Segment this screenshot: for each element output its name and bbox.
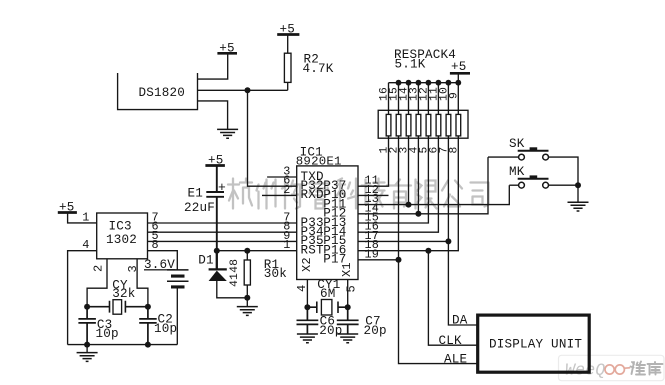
svg-text:10p: 10p xyxy=(154,322,177,336)
label +5 IC3 xyxy=(59,201,75,215)
IC1 inside right labels xyxy=(323,179,346,267)
label C3 xyxy=(97,318,113,332)
IC1 bottom pin numbers rotated xyxy=(295,285,359,293)
IC3 bottom pin numbers rotated xyxy=(92,265,141,273)
wire DS1820 pin3 GND xyxy=(198,101,228,129)
node pin18 CLK tap xyxy=(425,248,431,254)
label R2 xyxy=(304,53,320,67)
label +5 E1 xyxy=(208,153,224,167)
capacitor C3 10p xyxy=(78,307,96,345)
wire switch common to ground xyxy=(577,185,579,202)
IC3 left pin numbers xyxy=(82,211,89,253)
wire IC1 pin18 row to respack col8 xyxy=(358,138,458,251)
power +5 (R2) xyxy=(277,33,299,36)
wire SK right lead xyxy=(549,157,579,185)
crystal CY1 6M xyxy=(307,300,347,316)
svg-text:X2: X2 xyxy=(300,257,314,272)
label 4.7K xyxy=(303,62,334,76)
svg-text:20p: 20p xyxy=(319,324,342,338)
svg-text:1302: 1302 xyxy=(106,233,137,247)
svg-text:2: 2 xyxy=(92,265,106,272)
wire IC1 pin11 row to respack col1 xyxy=(358,138,389,186)
wire respack col3 drop xyxy=(408,138,410,204)
svg-text:22uF: 22uF xyxy=(184,201,215,215)
wire respack col2 through to ALE xyxy=(399,138,478,363)
wire RST segment to IC1 pin1 xyxy=(217,250,297,252)
node crystal left xyxy=(84,304,90,310)
svg-text:6M: 6M xyxy=(320,287,336,301)
power +5 (DS1820) xyxy=(217,52,237,55)
label DISPLAY UNIT xyxy=(489,338,582,352)
svg-text:RST: RST xyxy=(301,244,325,258)
node E1/D1 on RST line xyxy=(214,248,220,254)
label D1 xyxy=(198,253,214,267)
label C2 xyxy=(158,312,174,326)
svg-text:CLK: CLK xyxy=(439,334,463,348)
wire respack +5 stem xyxy=(457,73,459,82)
svg-text:IC3: IC3 xyxy=(109,220,132,234)
DS1820 U2 sensor box (open top) xyxy=(118,73,198,110)
svg-text:32k: 32k xyxy=(112,287,135,301)
node R1 top on RST line xyxy=(244,248,250,254)
label CY1 xyxy=(317,278,340,292)
crystal CY 32k xyxy=(87,300,148,315)
svg-text:4: 4 xyxy=(82,238,89,252)
wire bottom rail xyxy=(68,344,178,346)
IC1 pin4 X2 drop xyxy=(306,280,308,308)
battery BT1 3.6V xyxy=(167,270,189,345)
svg-text:+5: +5 xyxy=(451,60,467,74)
label DA xyxy=(452,314,468,328)
IC1 right pin numbers xyxy=(365,174,380,262)
svg-text:DA: DA xyxy=(452,314,468,328)
watermark chinese text row xyxy=(228,179,489,209)
svg-text:WeeQ: WeeQ xyxy=(565,361,605,380)
wire IC3-IC1 row pin7 xyxy=(148,222,297,224)
label +5 DS1820 xyxy=(219,42,235,56)
wire IC1 pin17 row DA xyxy=(358,240,448,242)
wire rail to ground xyxy=(86,345,88,353)
respack bottom pin numbers rotated 1..8 xyxy=(379,147,461,154)
wire DQ vertical to IC1 P32 pin6 xyxy=(248,90,297,186)
wire IC3-IC1 row pin9 xyxy=(148,240,297,242)
svg-text:10p: 10p xyxy=(96,327,119,341)
svg-text:5.1K: 5.1K xyxy=(395,57,426,71)
IC1 inside X2 X1 rotated xyxy=(300,257,354,277)
IC1 pin5 X1 drop xyxy=(347,280,349,308)
svg-text:8: 8 xyxy=(448,147,460,154)
watermark oo circles xyxy=(605,365,630,374)
svg-text:19: 19 xyxy=(365,247,380,261)
label ALE xyxy=(444,352,467,366)
capacitor E1 22uF xyxy=(206,166,224,251)
wire TXD stub pin3 xyxy=(267,176,297,178)
wire R1 to ground xyxy=(246,298,248,307)
svg-text:DS1820: DS1820 xyxy=(139,86,186,100)
svg-text:8920E1: 8920E1 xyxy=(296,155,342,169)
svg-text:+5: +5 xyxy=(280,23,296,37)
capacitor C6 20p xyxy=(297,307,319,334)
respack resistor bodies and pin stubs xyxy=(386,83,461,139)
IC1 AT89C2051 box xyxy=(297,166,358,280)
svg-text:SK: SK xyxy=(509,137,525,151)
wire IC3 pin4 down left rail xyxy=(68,251,97,345)
svg-text:9: 9 xyxy=(448,92,460,99)
display unit box xyxy=(478,315,590,372)
svg-text:1: 1 xyxy=(82,211,89,225)
svg-text:X1: X1 xyxy=(340,262,354,277)
wire IC3 pin8 to battery corner xyxy=(148,251,178,270)
svg-text:4148: 4148 xyxy=(229,259,241,287)
label IC3 xyxy=(109,220,132,234)
ground (switches) xyxy=(568,202,589,211)
label 6M xyxy=(320,287,336,301)
svg-text:+5: +5 xyxy=(219,42,235,56)
wire IC3 pin3 to crystal right xyxy=(137,259,148,307)
svg-text:ALE: ALE xyxy=(444,352,467,366)
label 4148 rotated xyxy=(229,259,241,287)
wire respack top bus xyxy=(389,82,459,84)
wire MK right lead xyxy=(549,184,579,186)
wire respack col4 drop xyxy=(417,138,419,214)
label 5.1K xyxy=(395,57,426,71)
label 30k xyxy=(264,267,287,281)
label MK xyxy=(509,165,525,179)
svg-text:5: 5 xyxy=(345,285,359,292)
wire respack col7 through to DA xyxy=(448,138,477,325)
switch SK xyxy=(518,147,549,160)
ground (DS1820) xyxy=(217,129,238,138)
IC1 inside left labels xyxy=(301,170,325,258)
label SK xyxy=(509,137,525,151)
label CY xyxy=(112,278,128,292)
node pin19 respack col2 ALE xyxy=(396,257,402,263)
capacitor C2 10p xyxy=(139,307,157,345)
watermark weiku glyphs xyxy=(631,362,663,375)
ground (C6) xyxy=(297,334,318,343)
svg-text:30k: 30k xyxy=(264,267,287,281)
wire IC1 pin12 stub xyxy=(358,194,389,196)
label 1302 xyxy=(106,233,137,247)
label 10P C2 xyxy=(154,322,177,336)
svg-text:2: 2 xyxy=(283,183,290,197)
label 892051 xyxy=(296,155,342,169)
wire IC1 pin13 row to MK xyxy=(358,185,509,204)
wire SK left lead xyxy=(488,156,519,158)
ground (R1/D1) xyxy=(237,307,258,316)
label DS1820 xyxy=(139,86,186,100)
label IC1 xyxy=(300,146,323,160)
switch MK xyxy=(518,175,549,188)
label RESPACK4 xyxy=(394,48,456,62)
svg-text:+5: +5 xyxy=(208,153,224,167)
node D1/R1 bottom junction xyxy=(244,295,250,301)
label +5 R2 xyxy=(280,23,296,37)
node switch common xyxy=(575,182,581,188)
IC3 DS1302 box xyxy=(97,213,148,259)
label 22uF xyxy=(184,201,215,215)
svg-text:20p: 20p xyxy=(364,324,387,338)
ground (C7) xyxy=(337,334,358,343)
respack top pin numbers rotated 16..9 xyxy=(379,87,461,101)
node pin14 respack col4 xyxy=(415,211,421,217)
svg-text:+5: +5 xyxy=(59,201,75,215)
power +5 (E1) xyxy=(205,164,225,167)
power +5 (IC3) xyxy=(58,211,77,214)
label 20P C7 xyxy=(364,324,387,338)
label 10P C3 xyxy=(96,327,119,341)
resistor R1 30k xyxy=(244,251,250,298)
svg-text:RXD: RXD xyxy=(301,188,324,202)
watermark WeeQ text xyxy=(565,361,605,380)
nodes on respack bus xyxy=(396,80,462,86)
svg-text:D1: D1 xyxy=(198,253,214,267)
wire IC1 pin14 row to SK xyxy=(358,157,488,214)
wire IC3 pin1 to +5 xyxy=(68,213,97,223)
label R1 xyxy=(264,258,280,272)
label E1 xyxy=(188,186,204,200)
resistor R2 4.7K xyxy=(284,35,291,91)
respack RESPACK4 box xyxy=(378,110,468,138)
capacitor C7 20p xyxy=(337,307,359,334)
ground (rail) xyxy=(77,353,98,362)
node pin17 respack col7 xyxy=(445,238,451,244)
label 3.6V xyxy=(144,258,175,272)
node X2 xyxy=(304,304,310,310)
svg-text:+: + xyxy=(218,180,226,195)
node pin13 respack col3 xyxy=(406,202,412,208)
svg-text:4.7K: 4.7K xyxy=(303,62,334,76)
wire DS1820 pin2 DQ row xyxy=(198,89,288,91)
node rail C3 xyxy=(84,342,90,348)
node rail C2 xyxy=(145,342,151,348)
svg-text:DISPLAY UNIT: DISPLAY UNIT xyxy=(489,338,582,352)
node DQ junction xyxy=(245,87,251,93)
wire IC3 pin2 to crystal left xyxy=(87,259,107,307)
svg-text:8: 8 xyxy=(152,238,159,252)
wire IC1 pin15 row to respack col5 xyxy=(358,138,428,223)
wire DS1820 pin1 VDD to +5 xyxy=(198,53,228,79)
label C7 xyxy=(365,314,381,328)
power +5 (respack) xyxy=(450,72,470,75)
label 20P C6 xyxy=(319,324,342,338)
node X1 xyxy=(345,304,351,310)
wire IC3-IC1 row pin8 xyxy=(148,231,297,233)
svg-text:3: 3 xyxy=(126,265,140,272)
IC3 right pin numbers xyxy=(152,211,159,253)
wire MK left lead xyxy=(509,184,518,186)
svg-text:E1: E1 xyxy=(188,186,204,200)
wire CLK drop xyxy=(428,251,477,346)
watermark weeqoo box xyxy=(559,355,665,380)
wire IC1 pin16 row to respack col6 xyxy=(358,138,438,232)
wire RXD stub pin2 xyxy=(262,194,297,196)
label +5 respack xyxy=(451,60,467,74)
label C6 xyxy=(320,314,336,328)
label 32k xyxy=(112,287,135,301)
svg-text:3.6V: 3.6V xyxy=(144,258,175,272)
svg-text:MK: MK xyxy=(509,165,525,179)
wire IC1 pin19 row xyxy=(358,259,399,261)
svg-text:4: 4 xyxy=(295,285,309,292)
diode D1 4148 xyxy=(209,251,248,298)
IC1 left pin numbers xyxy=(283,165,290,253)
label E1 plus sign xyxy=(218,180,226,195)
label CLK xyxy=(439,334,463,348)
svg-text:1: 1 xyxy=(283,238,290,252)
node crystal right xyxy=(145,304,151,310)
